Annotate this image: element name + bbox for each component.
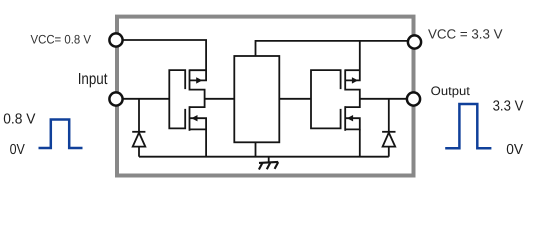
svg-text:VCC= 0.8 V: VCC= 0.8 V [31,32,92,46]
svg-text:VCC = 3.3 V: VCC = 3.3 V [428,27,503,42]
svg-text:0V: 0V [10,142,26,158]
svg-text:Input: Input [78,71,108,88]
svg-text:Output: Output [431,84,471,98]
svg-text:0.8 V: 0.8 V [3,112,35,128]
svg-text:0V: 0V [506,142,523,158]
svg-text:3.3 V: 3.3 V [493,98,524,114]
